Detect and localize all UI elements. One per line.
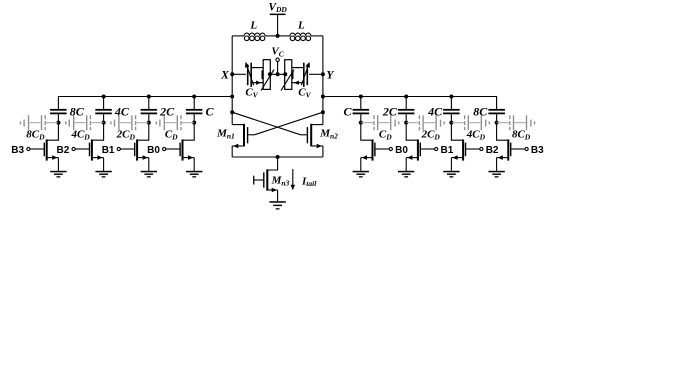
svg-text:Y: Y — [326, 68, 335, 82]
parasitic capacitor 4CD (gray, L) — [66, 115, 104, 130]
control VC terminal — [271, 46, 284, 75]
inductor L left — [244, 20, 265, 41]
svg-text:Mn3: Mn3 — [271, 175, 290, 188]
transistor switch B0 (R bank) — [361, 139, 393, 160]
svg-text:C: C — [343, 105, 352, 119]
wire X vertical (tank to Mn1 drain) — [231, 36, 233, 125]
capacitor 2C (R bank) — [382, 105, 415, 119]
svg-text:CD: CD — [165, 129, 178, 142]
parasitic capacitor 2CD (gray, R) — [406, 115, 444, 130]
junction rail branch 4C L — [102, 95, 106, 99]
transistor switch B0 (L bank) — [163, 139, 195, 160]
ground (L C) — [186, 171, 202, 178]
wire X lower (Mn1 source to tail rail) — [231, 146, 233, 157]
junction rail branch C R — [359, 95, 363, 99]
ground (R C) — [353, 171, 369, 178]
svg-text:8CD: 8CD — [26, 129, 45, 142]
transistor Mn3 — [253, 169, 289, 192]
svg-text:VC: VC — [271, 46, 284, 59]
inductor L right — [290, 20, 311, 41]
parasitic capacitor 4CD (gray, R) — [451, 115, 489, 130]
wire rail to capacitor 4C R — [450, 97, 452, 110]
wire Y lower (Mn2 source to tail rail) — [322, 146, 324, 157]
junction varactor left body — [268, 72, 272, 76]
wire capacitor to node (R 4C) — [450, 114, 452, 122]
capacitor 8C (R bank) — [473, 105, 505, 119]
wire switch source to ground (R 8C) — [496, 158, 498, 171]
parasitic capacitor CD (gray, L) — [156, 115, 194, 130]
transistor switch B2 (L bank) — [72, 139, 104, 160]
transistor switch B3 (L bank) — [27, 139, 59, 160]
wire switch source to ground (R C) — [360, 158, 362, 171]
wire capacitor to node (R C) — [360, 114, 362, 122]
varactor Cv left — [245, 60, 274, 100]
svg-text:B2: B2 — [57, 145, 70, 156]
wire capacitor to node (R 2C) — [405, 114, 407, 122]
wire center node to inductor right — [278, 35, 290, 37]
capacitor 2C (L bank) — [141, 105, 176, 119]
wire varactor right to Y — [309, 73, 323, 75]
wire node to switch drain (L 2C) — [137, 123, 149, 141]
node X — [230, 72, 234, 76]
varactor Cv right — [281, 60, 312, 100]
capacitor C (L bank) — [186, 105, 215, 119]
svg-text:CV: CV — [298, 87, 311, 100]
junction X with left bank rail — [230, 95, 234, 99]
svg-text:B3: B3 — [531, 145, 544, 156]
ground tail — [269, 201, 285, 209]
wire rail to capacitor 2C R — [405, 97, 407, 110]
transistor Mn2 — [301, 124, 339, 149]
transistor switch B3 (R bank) — [497, 139, 529, 160]
node branch C R — [359, 121, 363, 125]
junction Y with right bank rail — [321, 95, 325, 99]
wire capacitor to node (L 4C) — [103, 114, 105, 122]
transistor switch B2 (R bank) — [451, 139, 483, 160]
svg-text:L: L — [297, 20, 305, 32]
svg-text:B1: B1 — [102, 145, 115, 156]
svg-text:B0: B0 — [147, 145, 160, 156]
node branch 4C R — [449, 121, 453, 125]
ground (L 4C) — [95, 171, 111, 178]
wire node to switch drain (R 8C) — [497, 123, 509, 141]
svg-text:Mn1: Mn1 — [216, 128, 235, 141]
wire Y vertical (tank to Mn2 drain) — [322, 36, 324, 125]
ground (L 2C) — [141, 171, 157, 178]
svg-text:Mn2: Mn2 — [319, 128, 338, 141]
transistor switch B1 (R bank) — [406, 139, 438, 160]
wire varactor left to VC node — [270, 73, 285, 75]
svg-text:Itail: Itail — [301, 175, 317, 188]
wire switch source to ground (L C) — [193, 158, 195, 171]
svg-text:B3: B3 — [11, 145, 24, 156]
node branch 2C L — [147, 121, 151, 125]
ground (R 2C) — [398, 171, 414, 178]
wire capacitor to node (L 8C) — [57, 114, 59, 122]
wire node to switch drain (L C) — [183, 123, 195, 141]
svg-text:4CD: 4CD — [70, 129, 90, 142]
node branch 8C L — [56, 121, 60, 125]
junction rail branch 4C R — [449, 95, 453, 99]
node branch 2C R — [404, 121, 408, 125]
wire rail to capacitor C L — [193, 97, 195, 110]
svg-text:2C: 2C — [382, 105, 398, 119]
node branch C L — [192, 121, 196, 125]
parasitic capacitor CD (gray, R) — [361, 115, 399, 130]
svg-text:B0: B0 — [395, 145, 408, 156]
svg-text:C: C — [206, 105, 215, 119]
parasitic capacitor 8CD (gray, L) — [21, 115, 59, 130]
wire X to varactor Cv left — [232, 73, 246, 75]
svg-text:B1: B1 — [441, 145, 454, 156]
wire node to switch drain (L 8C) — [47, 123, 59, 141]
wire inductor left to center node — [265, 35, 278, 37]
ground (R 4C) — [443, 171, 459, 178]
svg-text:4C: 4C — [114, 105, 130, 119]
wire switch source to ground (L 2C) — [148, 158, 150, 171]
junction Y cross-coupling — [321, 110, 325, 114]
svg-text:B2: B2 — [486, 145, 499, 156]
wire Mn3 source to ground — [277, 190, 279, 201]
wire switch source to ground (R 2C) — [405, 158, 407, 171]
svg-text:8CD: 8CD — [512, 129, 531, 142]
svg-text:X: X — [220, 68, 230, 82]
wire left bank top rail — [58, 97, 232, 110]
wire capacitor to node (L C) — [193, 114, 195, 122]
wire capacitor to node (R 8C) — [496, 114, 498, 122]
node VC junction — [276, 72, 280, 76]
wire tail node to Mn3 drain — [267, 157, 277, 170]
parasitic capacitor 8CD (gray, R) — [497, 115, 535, 130]
power VDD symbol — [268, 1, 287, 15]
wire VDD to tank center — [277, 15, 279, 36]
svg-text:CD: CD — [379, 129, 392, 142]
svg-text:4CD: 4CD — [466, 129, 486, 142]
wire switch source to ground (R 4C) — [450, 158, 452, 171]
transistor switch B1 (L bank) — [117, 139, 149, 160]
transistor Mn1 — [216, 124, 254, 149]
wire node to switch drain (R 4C) — [451, 123, 463, 141]
wire rail to capacitor 4C L — [103, 97, 105, 110]
junction rail branch 2C R — [404, 95, 408, 99]
wire rail to capacitor C R — [360, 97, 362, 110]
parasitic capacitor 2CD (gray, L) — [111, 115, 149, 130]
svg-text:2C: 2C — [159, 105, 175, 119]
svg-text:8C: 8C — [70, 105, 85, 119]
wire switch source to ground (L 8C) — [57, 158, 59, 171]
wire node to switch drain (L 4C) — [92, 123, 104, 141]
node Y — [321, 72, 325, 76]
junction rail branch C L — [192, 95, 196, 99]
wire node to switch drain (R C) — [361, 123, 373, 141]
wire cross-coupling Y to Mn1 gate — [254, 112, 323, 135]
wire capacitor to node (L 2C) — [148, 114, 150, 122]
wire node to switch drain (R 2C) — [406, 123, 418, 141]
wire switch source to ground (L 4C) — [103, 158, 105, 171]
capacitor 8C (L bank) — [50, 105, 85, 119]
junction rail branch 2C L — [147, 95, 151, 99]
capacitor 4C (L bank) — [95, 105, 130, 119]
svg-text:2CD: 2CD — [116, 129, 136, 142]
svg-text:VDD: VDD — [268, 1, 287, 14]
ground (L 8C) — [50, 171, 66, 178]
svg-text:4C: 4C — [427, 105, 443, 119]
node branch 4C L — [102, 121, 106, 125]
svg-text:CV: CV — [245, 87, 258, 100]
capacitor 4C (R bank) — [427, 105, 460, 119]
wire rail to capacitor 2C L — [148, 97, 150, 110]
svg-text:2CD: 2CD — [421, 129, 441, 142]
svg-text:8C: 8C — [473, 105, 488, 119]
wire inductor right to Y vertical — [311, 35, 323, 37]
node tank center junction — [276, 34, 280, 38]
wire tail rail — [232, 156, 323, 158]
ground (R 8C) — [488, 171, 504, 178]
wire cross-coupling X to Mn2 gate — [232, 112, 300, 135]
capacitor C (R bank) — [343, 105, 369, 119]
wire right bank top rail — [323, 97, 497, 110]
wire inductor left to X vertical — [232, 35, 244, 37]
node branch 8C R — [495, 121, 499, 125]
node tail junction — [276, 155, 280, 159]
current Itail arrow — [291, 169, 318, 190]
svg-text:L: L — [249, 20, 257, 32]
junction varactor right body — [283, 72, 287, 76]
junction X cross-coupling — [230, 110, 234, 114]
